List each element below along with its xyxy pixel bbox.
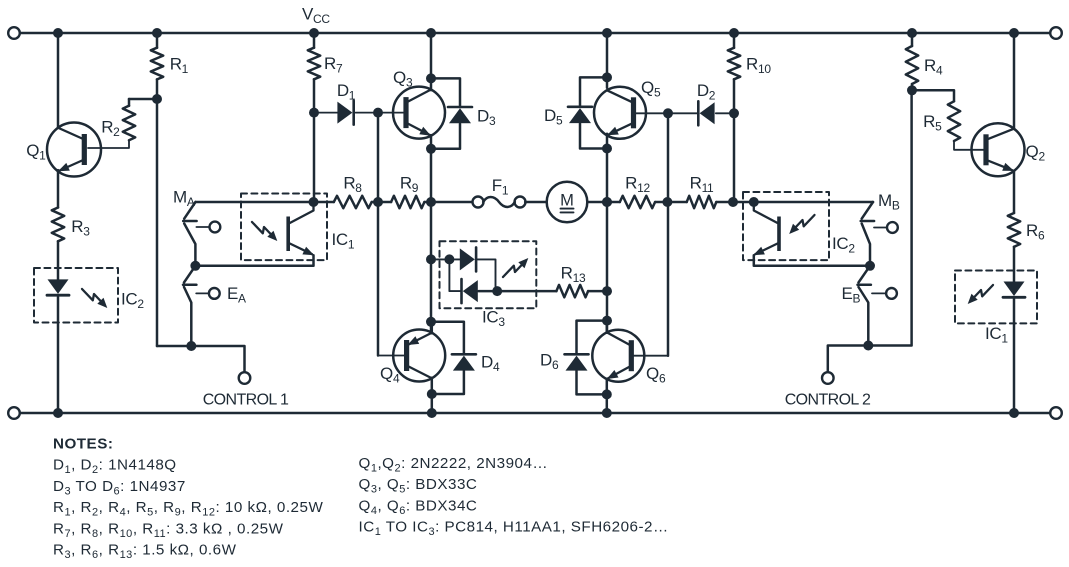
svg-text:M: M bbox=[560, 192, 574, 210]
svg-text:Q1​,Q2​: 2N2222, 2N3904…: Q1​,Q2​: 2N2222, 2N3904… bbox=[359, 455, 549, 475]
svg-text:NOTES:: NOTES: bbox=[53, 436, 113, 453]
svg-text:D1​, D2​: 1N4148Q: D1​, D2​: 1N4148Q bbox=[53, 457, 177, 477]
svg-text:D3​ TO D6​: 1N4937: D3​ TO D6​: 1N4937 bbox=[53, 478, 186, 498]
svg-text:R3​, R6​, R13​: 1.5 kΩ, 0.6W: R3​, R6​, R13​: 1.5 kΩ, 0.6W bbox=[53, 542, 237, 562]
svg-text:CONTROL 1: CONTROL 1 bbox=[203, 391, 289, 408]
svg-text:IC1​ TO IC3​: PC814, H11AA1, S: IC1​ TO IC3​: PC814, H11AA1, SFH6206-2… bbox=[359, 519, 669, 539]
svg-text:CONTROL 2: CONTROL 2 bbox=[785, 391, 871, 408]
svg-text:R7​, R8​, R10​, R11​: 3.3 kΩ ,: R7​, R8​, R10​, R11​: 3.3 kΩ , 0.25W bbox=[53, 520, 284, 540]
